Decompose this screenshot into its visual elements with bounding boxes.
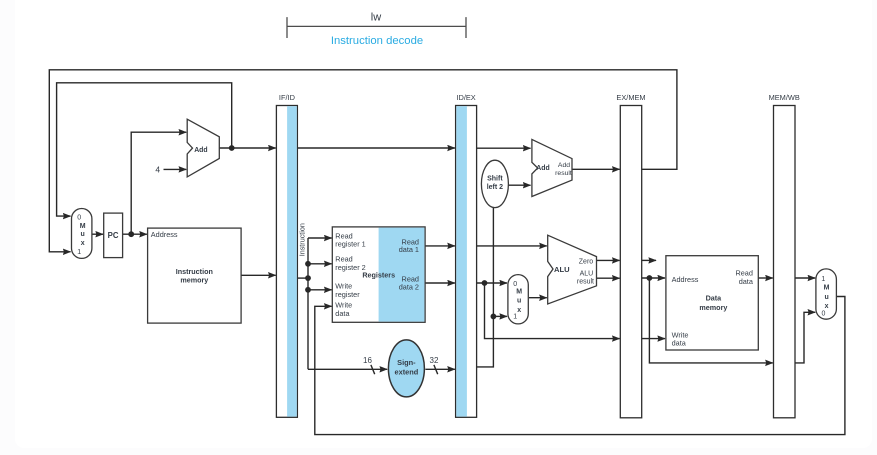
node instruction bus read reg 2 [305, 261, 311, 267]
svg-text:result: result [577, 279, 594, 286]
data memory [666, 256, 758, 350]
wire MEM/WB ALU result to mux 0 [795, 312, 815, 363]
wire PC+4 feedback to PC mux input 0 [57, 83, 232, 216]
wire Shift left 2 to branch Add [508, 184, 531, 186]
wire ID/EX read data 2 to ALU mux 0 [477, 282, 507, 284]
node instruction bus entry [305, 275, 311, 281]
adder Add (PC+4) [187, 119, 219, 177]
wire Add output to IF/ID [219, 147, 275, 149]
wire instruction bus vertical [307, 238, 309, 369]
shift left 2 unit [481, 160, 508, 207]
node PC+4 junction [229, 145, 235, 151]
svg-text:0: 0 [822, 311, 826, 318]
wire constant 4 to Add bottom input [164, 168, 187, 170]
svg-text:MEM/WB: MEM/WB [769, 93, 800, 102]
svg-text:M: M [824, 285, 830, 292]
svg-text:data: data [739, 277, 754, 286]
svg-text:4: 4 [155, 164, 160, 174]
svg-text:u: u [517, 298, 521, 305]
svg-text:M: M [80, 223, 86, 230]
stage bracket [287, 17, 466, 38]
wire PC mux to PC [92, 233, 103, 235]
wire read data 2 down to EX/MEM write data [485, 283, 620, 339]
svg-text:1: 1 [77, 249, 81, 256]
wire instruction to Read register 2 [308, 263, 332, 265]
node immediate junction [491, 314, 497, 320]
svg-text:register 1: register 1 [335, 240, 365, 249]
wire Read data 2 to ID/EX [425, 282, 455, 284]
wire branch feedback EX/MEM to PC mux input 1 [49, 70, 677, 252]
svg-text:EX/MEM: EX/MEM [616, 93, 645, 102]
register ID/EX [456, 93, 477, 417]
registers file [332, 227, 425, 322]
svg-text:Instruction: Instruction [297, 223, 306, 256]
svg-text:extend: extend [394, 368, 418, 377]
wire ID/EX PC+4 to branch Add [477, 147, 531, 149]
wire ALU Zero to EX/MEM [597, 259, 620, 261]
mux ALU source [508, 275, 528, 324]
wire instruction to Read register 1 [308, 237, 332, 239]
svg-text:Shift: Shift [487, 175, 503, 182]
svg-text:x: x [825, 303, 829, 310]
svg-text:16: 16 [363, 356, 372, 365]
svg-text:left 2: left 2 [487, 184, 503, 191]
node PC output junction [128, 231, 134, 237]
register EX/MEM [616, 93, 645, 418]
svg-text:32: 32 [430, 356, 439, 365]
wire EX/MEM to Data memory Address [642, 277, 665, 279]
svg-text:data 2: data 2 [399, 283, 419, 292]
wire instruction to Write register [308, 289, 332, 291]
svg-text:x: x [517, 307, 521, 314]
node read data 2 junction [482, 280, 488, 286]
svg-text:Address: Address [672, 275, 699, 284]
svg-text:0: 0 [77, 215, 81, 222]
svg-text:PC: PC [108, 231, 119, 240]
wire PC+4 from IF/ID to ID/EX [297, 147, 455, 149]
svg-text:1: 1 [513, 314, 517, 321]
svg-text:data: data [335, 309, 350, 318]
svg-text:Add: Add [194, 147, 207, 154]
svg-text:0: 0 [513, 281, 517, 288]
ALU [548, 235, 597, 304]
svg-text:1: 1 [821, 276, 825, 283]
svg-text:result: result [555, 170, 572, 177]
wire ID/EX sign-extend to Shift left 2 [477, 206, 494, 367]
node ALU result junction [647, 275, 653, 281]
mux PC source [72, 209, 92, 259]
bus width slash 16 [371, 365, 375, 374]
wire ALU result bypass to MEM/WB [649, 278, 772, 363]
svg-text:lw: lw [371, 12, 381, 24]
node instruction bus write reg [305, 287, 311, 293]
wire Read data 1 to ID/EX [425, 245, 455, 247]
svg-text:ALU: ALU [580, 271, 594, 278]
wire MEM/WB read data to mux 1 [795, 277, 815, 279]
junction dots [128, 145, 652, 319]
svg-text:register 2: register 2 [335, 263, 365, 272]
wire ALU mux to ALU [529, 297, 547, 299]
svg-text:ID/EX: ID/EX [456, 93, 475, 102]
wire Instruction memory out to IF/ID [241, 274, 276, 276]
PC [104, 213, 123, 258]
wire ALU result to EX/MEM [597, 277, 620, 279]
wire PC up to Add top input [131, 132, 186, 234]
svg-text:data 1: data 1 [399, 245, 419, 254]
register MEM/WB [769, 93, 800, 418]
bus width slash 32 [434, 365, 438, 374]
wire sign-extend immediate to ALU mux 1 [493, 315, 507, 317]
svg-text:Registers: Registers [362, 271, 395, 280]
wire Zero stub out of EX/MEM [642, 259, 656, 261]
svg-text:IF/ID: IF/ID [279, 93, 295, 102]
wire PC out to Instruction memory Address [123, 233, 147, 235]
svg-text:u: u [824, 294, 828, 301]
svg-text:Zero: Zero [579, 258, 594, 265]
svg-text:Add: Add [536, 165, 549, 172]
svg-text:memory: memory [699, 303, 727, 312]
mux write-back [816, 269, 837, 319]
svg-text:Add: Add [558, 162, 570, 169]
svg-text:Data: Data [706, 293, 723, 302]
svg-text:Instruction decode: Instruction decode [331, 35, 423, 47]
svg-text:data: data [672, 338, 687, 347]
svg-text:ALU: ALU [554, 265, 570, 274]
wire instruction to Sign-extend [308, 368, 387, 370]
svg-text:memory: memory [180, 276, 208, 285]
instruction memory [148, 228, 242, 323]
svg-text:u: u [81, 231, 85, 238]
wire Sign-extend to ID/EX [425, 368, 455, 370]
wire write-back to Write data [315, 297, 845, 435]
svg-text:Sign-: Sign- [397, 358, 416, 367]
register IF/ID [276, 93, 297, 417]
wire branch Add result to EX/MEM [572, 168, 620, 170]
svg-text:register: register [335, 290, 360, 299]
wire ID/EX read data 1 to ALU [477, 245, 547, 247]
sign-extend unit [388, 340, 424, 397]
adder Add (branch target) [532, 139, 572, 196]
svg-text:M: M [516, 289, 522, 296]
wire instruction bus out of IF/ID [297, 277, 308, 279]
wire Data memory read data to MEM/WB [758, 277, 773, 279]
svg-text:x: x [81, 240, 85, 247]
wire EX/MEM write data to Data memory [642, 338, 665, 340]
svg-text:Address: Address [151, 230, 178, 239]
